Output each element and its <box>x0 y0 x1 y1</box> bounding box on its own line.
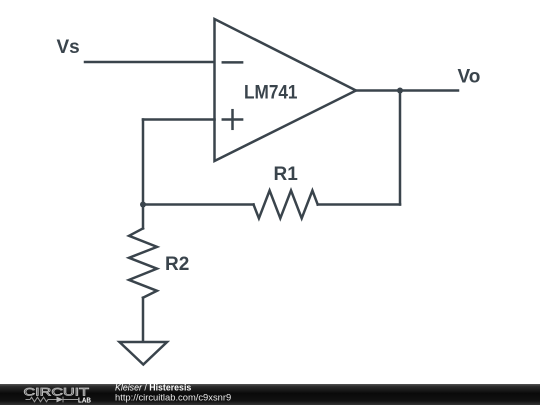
wire feedback bottom left segment <box>143 203 254 206</box>
wire feedback bottom right segment <box>318 203 400 206</box>
svg-text:R2: R2 <box>165 254 189 275</box>
CircuitLab logo diode triangle <box>57 397 64 403</box>
wire junction to R2 <box>142 205 145 229</box>
op-amp inverting input minus sign <box>223 61 242 64</box>
svg-text:LM741: LM741 <box>244 83 298 104</box>
CircuitLab logo wire with resistor and diode <box>26 397 79 403</box>
op-amp U1 LM741 triangle body <box>215 19 357 161</box>
wire vertical feedback left <box>142 120 145 205</box>
wire op-amp output to Vo <box>356 89 458 92</box>
op-amp non-inverting input plus sign <box>223 118 242 121</box>
svg-text:LAB: LAB <box>78 397 91 404</box>
wire feedback vertical right <box>399 91 402 205</box>
resistor R1 <box>254 191 318 219</box>
svg-text:Vs: Vs <box>57 37 80 58</box>
node junction dot output <box>397 88 403 94</box>
wire Vs to op-amp inverting input <box>85 61 215 64</box>
ground symbol <box>120 342 168 365</box>
svg-text:R1: R1 <box>274 164 299 185</box>
svg-text:Vo: Vo <box>458 67 481 88</box>
resistor R2 <box>129 228 157 297</box>
node junction dot feedback <box>140 202 146 208</box>
svg-text:http://circuitlab.com/c9xsnr9: http://circuitlab.com/c9xsnr9 <box>115 391 231 402</box>
wire R2 to ground <box>142 298 145 342</box>
wire to non-inverting input <box>143 118 215 121</box>
